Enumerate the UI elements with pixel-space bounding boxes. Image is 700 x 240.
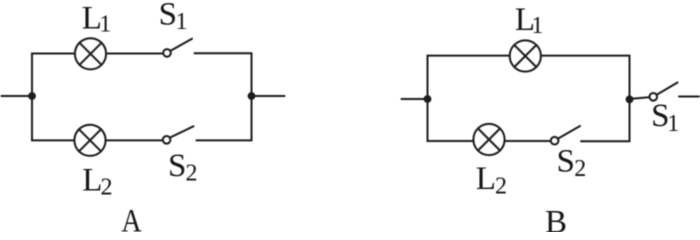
svg-text:1: 1 — [531, 13, 543, 39]
svg-text:2: 2 — [495, 173, 507, 199]
svg-text:1: 1 — [176, 9, 188, 35]
svg-text:2: 2 — [101, 174, 113, 200]
svg-text:L: L — [82, 163, 102, 199]
svg-text:L: L — [476, 161, 496, 197]
svg-text:2: 2 — [574, 156, 586, 182]
svg-text:B: B — [545, 204, 567, 232]
svg-text:S: S — [168, 148, 186, 184]
svg-text:1: 1 — [667, 111, 679, 137]
svg-text:S: S — [557, 144, 575, 180]
svg-text:S: S — [159, 0, 177, 33]
svg-text:2: 2 — [186, 161, 198, 187]
svg-text:1: 1 — [99, 12, 111, 38]
svg-text:A: A — [121, 203, 141, 232]
